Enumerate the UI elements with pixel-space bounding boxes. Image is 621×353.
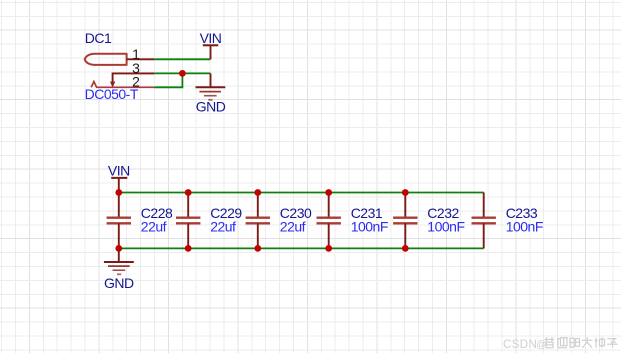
- svg-text:@: @: [536, 340, 546, 351]
- junction top: [325, 189, 332, 196]
- capacitor C228: [107, 193, 131, 249]
- power port VIN (rail): [108, 163, 130, 193]
- junction top: [185, 189, 192, 196]
- junction bottom: [254, 245, 261, 252]
- svg-text:VIN: VIN: [200, 30, 222, 46]
- svg-text:CSDN: CSDN: [503, 339, 537, 351]
- connector DC1 barrel: [85, 54, 127, 65]
- pin 3: [110, 73, 154, 87]
- ground GND: [196, 73, 226, 114]
- svg-text:DC050-T: DC050-T: [85, 86, 139, 102]
- capacitor C230: [246, 193, 270, 249]
- capacitor C232: [393, 193, 417, 249]
- capacitor C231: [317, 193, 341, 249]
- svg-text:100nF: 100nF: [506, 219, 543, 235]
- capacitor C229: [176, 193, 200, 249]
- wire top rail: [119, 192, 484, 194]
- svg-text:100nF: 100nF: [427, 219, 464, 235]
- wire pin1 to VIN: [154, 58, 210, 60]
- svg-text:2: 2: [132, 74, 140, 90]
- junction bottom: [402, 245, 409, 252]
- svg-text:22uf: 22uf: [141, 219, 167, 235]
- capacitor C233: [472, 193, 496, 249]
- wire pin2 up to node: [154, 73, 182, 87]
- junction top: [254, 189, 261, 196]
- junction bottom: [325, 245, 332, 252]
- power port VIN: [200, 30, 222, 59]
- svg-text:22uf: 22uf: [280, 219, 306, 235]
- svg-text:VIN: VIN: [108, 163, 130, 179]
- svg-text:GND: GND: [196, 99, 226, 115]
- junction: [179, 70, 186, 77]
- junction bottom: [115, 245, 122, 252]
- pin 1: [127, 58, 155, 60]
- junction top: [115, 189, 122, 196]
- svg-text:DC1: DC1: [85, 30, 112, 46]
- pin 2: [91, 82, 154, 88]
- ground GND (rail): [104, 248, 134, 290]
- wire pin3 to GND: [154, 72, 210, 74]
- junction bottom: [185, 245, 192, 252]
- svg-text:GND: GND: [104, 275, 134, 291]
- svg-text:22uf: 22uf: [210, 219, 236, 235]
- svg-text:100nF: 100nF: [351, 219, 388, 235]
- junction top: [402, 189, 409, 196]
- wire bottom rail: [119, 247, 484, 249]
